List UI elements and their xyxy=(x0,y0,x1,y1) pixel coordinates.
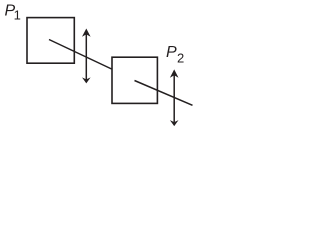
svg-text:1: 1 xyxy=(14,7,21,22)
wire diagonal ray 1 xyxy=(49,40,112,70)
arrow E-field 1 shaft xyxy=(85,33,87,80)
arrow E-field 1 top head xyxy=(82,29,91,37)
polarizer square P1 xyxy=(27,18,74,64)
arrow E-field 1 bottom head xyxy=(82,77,91,83)
arrow E-field 2 top head xyxy=(170,69,179,77)
svg-text:2: 2 xyxy=(177,50,184,65)
svg-text:P: P xyxy=(166,44,177,61)
polarizer square P2 xyxy=(112,57,157,103)
wire diagonal ray 2 xyxy=(135,81,193,106)
arrow E-field 2 bottom head xyxy=(170,120,179,126)
arrow E-field 2 shaft xyxy=(173,74,175,122)
